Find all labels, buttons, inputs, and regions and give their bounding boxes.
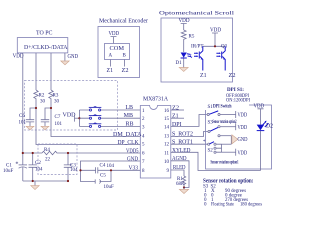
svg-text:30: 30 [54,100,60,105]
svg-text:VDD: VDD [238,150,248,156]
svg-text:S_ROT1: S_ROT1 [172,140,193,146]
svg-text:VDD5: VDD5 [126,148,139,154]
svg-text:C2: C2 [35,161,41,166]
svg-text:104: 104 [35,168,43,173]
svg-text:Z2: Z2 [122,68,129,74]
svg-text:C4: C4 [100,164,106,169]
svg-text:C7: C7 [55,115,61,120]
svg-text:101: 101 [19,121,27,126]
svg-text:GND: GND [68,54,79,60]
svg-text:R3: R3 [53,94,59,99]
svg-text:LB: LB [125,105,133,111]
svg-text:101: 101 [55,122,63,127]
svg-text:10uF: 10uF [3,169,14,174]
svg-text:Z2: Z2 [229,73,236,79]
svg-text:22: 22 [45,158,51,163]
svg-text:Z1: Z1 [172,114,179,120]
svg-text:S2: S2 [208,149,214,154]
svg-text:VDD: VDD [238,113,248,119]
svg-text:Optomechanical Scroll: Optomechanical Scroll [159,11,235,17]
svg-text:11: 11 [164,152,169,157]
svg-text:Sensor rotation option1: Sensor rotation option1 [211,161,239,166]
svg-text:ON:1200DPI: ON:1200DPI [226,98,250,104]
svg-text:10uF: 10uF [104,185,115,190]
svg-text:104: 104 [107,164,115,169]
svg-text:DPI: DPI [172,122,182,128]
svg-text:15: 15 [164,117,170,122]
svg-text:IR/PT: IR/PT [191,45,204,50]
svg-text:14: 14 [164,125,170,130]
svg-text:Sensor rotation option2: Sensor rotation option2 [213,120,237,125]
svg-text:Floating State: Floating State [211,202,235,207]
svg-text:Z1: Z1 [200,73,207,79]
svg-text:V33: V33 [129,166,139,172]
svg-text:Q3: Q3 [221,45,228,50]
svg-text:VDD: VDD [238,125,248,131]
svg-text:R4: R4 [44,148,50,153]
svg-text:C1: C1 [6,164,12,169]
svg-text:Z1: Z1 [107,68,114,74]
svg-text:GND: GND [127,156,139,162]
svg-text:MX8731A: MX8731A [143,97,169,103]
svg-text:R5: R5 [189,35,195,40]
svg-text:180 degrees: 180 degrees [240,202,262,207]
svg-text:16: 16 [164,109,170,114]
svg-text:DM_DATA: DM_DATA [113,132,142,138]
svg-text:MB: MB [124,113,133,119]
svg-text:104: 104 [70,168,78,173]
svg-text:30: 30 [40,100,46,105]
svg-text:VDD: VDD [109,31,120,37]
svg-text:C6: C6 [19,114,25,119]
svg-text:D1: D1 [176,61,183,66]
svg-text:TO PC: TO PC [36,31,53,37]
svg-text:A: A [109,54,113,59]
svg-text:DP_CLK: DP_CLK [118,140,140,146]
svg-text:C5: C5 [100,174,106,179]
svg-text:12: 12 [164,143,170,148]
svg-text:13: 13 [164,135,170,140]
svg-text:D2: D2 [266,124,273,130]
svg-text:COM: COM [110,46,125,52]
svg-text:DPI Switch: DPI Switch [213,105,232,110]
svg-text:Mechanical Encoder: Mechanical Encoder [99,19,148,25]
svg-text:RB: RB [125,121,133,127]
svg-text:D+/CLKD-/DATA: D+/CLKD-/DATA [24,45,68,51]
svg-text:68K: 68K [176,182,185,187]
svg-text:R2: R2 [39,94,45,99]
svg-text:10: 10 [164,160,170,165]
svg-text:GND: GND [238,137,249,143]
svg-text:Z2: Z2 [172,106,179,112]
svg-text:XYLED: XYLED [172,148,191,154]
